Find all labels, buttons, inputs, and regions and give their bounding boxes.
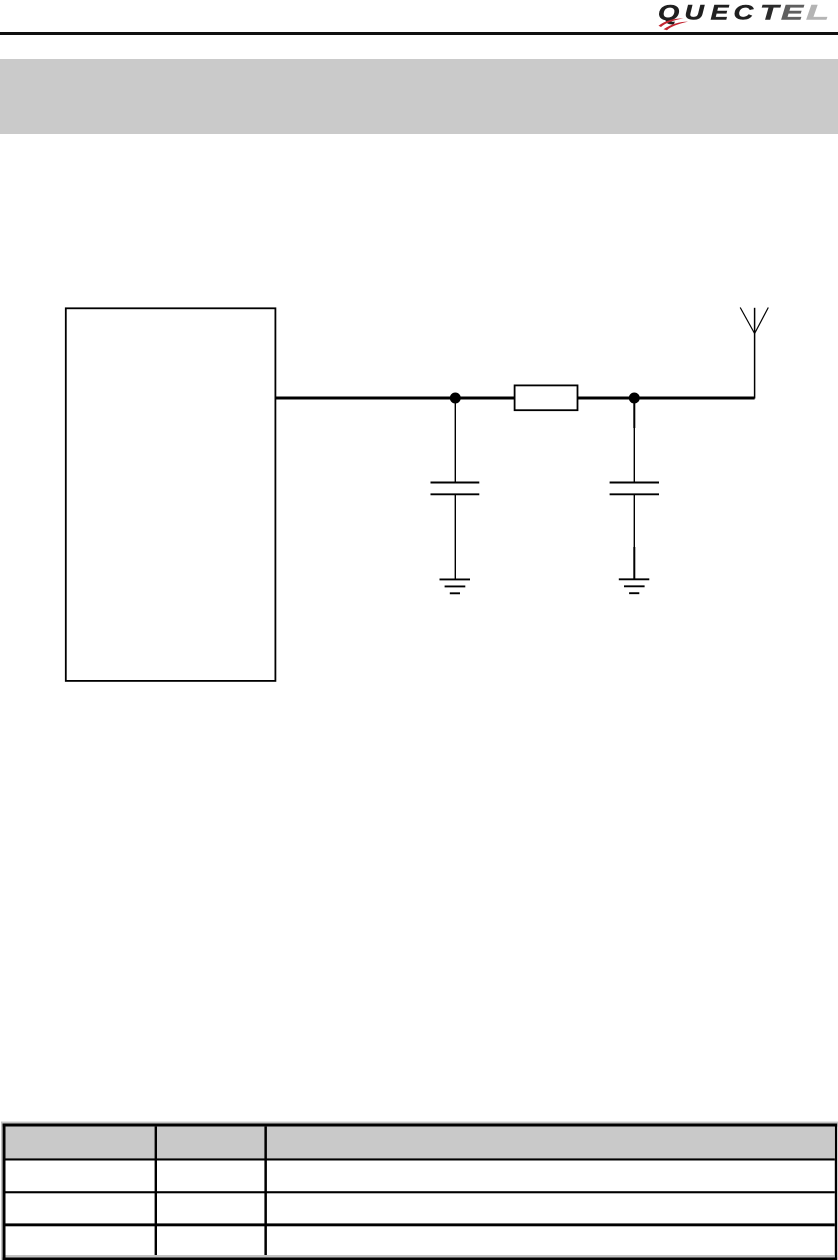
gray title band (0, 59, 838, 134)
resistor R1 (515, 385, 578, 410)
node A junction dot (450, 393, 461, 404)
ground GND1 (440, 578, 471, 580)
logo letter Q (658, 1, 679, 24)
table outer bevel left (1, 1122, 3, 1260)
table bottom bevel (6, 1255, 835, 1257)
column line 2 (264, 1127, 267, 1255)
table black frame (3, 1124, 838, 1127)
row line 2 (6, 1191, 835, 1193)
svg-text:U: U (685, 1, 705, 25)
row line 3 (6, 1223, 835, 1226)
svg-text:T: T (760, 0, 781, 24)
logo letter E gray (781, 1, 805, 24)
logo letter E (711, 1, 730, 25)
table outer bevel top (1, 1122, 838, 1124)
wire resistor to node B (578, 397, 755, 400)
ground GND2 (619, 578, 650, 580)
wire node B to capacitor C2 (633, 398, 635, 428)
svg-text:E: E (781, 1, 805, 24)
column line 1 (155, 1127, 157, 1255)
wire capacitor C1 to ground (454, 494, 456, 579)
table header row fill (6, 1127, 835, 1159)
matching table (0, 1115, 838, 1260)
wire module to node A (276, 397, 515, 400)
logo letter L light (806, 1, 829, 24)
capacitor C1 (431, 482, 480, 484)
wire node A to capacitor C1 (454, 398, 456, 482)
logo red swoosh lower stroke (664, 22, 689, 31)
logo letter U (685, 1, 705, 25)
header rule (0, 32, 838, 35)
logo letter T (760, 0, 781, 24)
antenna ANT1 (740, 308, 754, 334)
header bottom line (6, 1158, 835, 1160)
Quectel logo (640, 0, 838, 34)
capacitor C2 (610, 482, 659, 484)
svg-text:L: L (806, 1, 829, 24)
antenna feed wire (754, 308, 756, 399)
node B junction dot (629, 393, 640, 404)
svg-text:C: C (734, 1, 754, 24)
svg-text:E: E (711, 1, 730, 25)
wire capacitor C2 to ground (633, 494, 635, 547)
circuit schematic (0, 280, 838, 700)
module box U1 (66, 308, 276, 681)
logo letter C (734, 1, 754, 24)
logo red swoosh upper stroke (659, 18, 684, 27)
